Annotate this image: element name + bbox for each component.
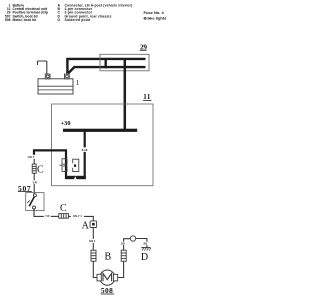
wire <box>51 215 59 217</box>
svg-text:Soldered point: Soldered point <box>65 18 92 22</box>
label 29 <box>140 43 148 51</box>
svg-text:A: A <box>82 221 90 232</box>
wire <box>33 159 35 164</box>
wire switch to bottom run <box>34 209 44 216</box>
svg-text:Y-R: Y-R <box>32 180 37 184</box>
svg-text:8-18: 8-18 <box>82 148 88 152</box>
svg-text:C: C <box>60 203 67 214</box>
terminal strip 29 <box>100 54 149 71</box>
wire <box>68 215 71 217</box>
connector A <box>90 221 97 228</box>
fuse clip right <box>73 159 79 171</box>
battery ground wire <box>38 61 47 74</box>
legend column 2 <box>58 3 133 22</box>
label 507 <box>18 184 32 193</box>
svg-text:B: B <box>105 252 112 263</box>
wire <box>92 228 94 239</box>
svg-text:GN-Y: GN-Y <box>28 155 35 159</box>
svg-text:Motor, boot lid: Motor, boot lid <box>13 18 36 22</box>
connector C left <box>32 164 36 173</box>
connector B right <box>121 250 126 261</box>
node +30 bus <box>63 129 137 132</box>
connector C bottom <box>59 214 69 219</box>
ground D <box>141 248 151 251</box>
connector B left <box>91 250 96 261</box>
svg-text:SB: SB <box>143 242 147 246</box>
svg-text:Brake lights: Brake lights <box>144 15 168 20</box>
wire to ground <box>136 239 147 242</box>
svg-text:SB: SB <box>121 242 125 246</box>
svg-text:11: 11 <box>143 93 151 101</box>
battery 1 <box>38 74 73 94</box>
wire B left to motor <box>93 261 97 277</box>
motor 508 <box>97 270 118 285</box>
bar in strip 29 <box>104 58 106 68</box>
svg-text:C: C <box>37 165 44 176</box>
central electrical unit 11 <box>52 104 154 186</box>
svg-text:508: 508 <box>5 18 11 22</box>
wire motor to B right <box>118 261 124 277</box>
label 508 <box>101 286 115 295</box>
wire bus to fuse <box>84 132 86 177</box>
svg-text:+30: +30 <box>61 120 71 127</box>
wire 29 down to unit 11 <box>124 58 127 130</box>
wire <box>92 243 94 250</box>
wire <box>146 245 148 247</box>
wire <box>33 184 35 194</box>
wire rail lower <box>68 67 145 73</box>
wire to soldered point <box>124 239 131 242</box>
wire rail upper (battery + to strip 29) <box>67 59 145 74</box>
fuse note <box>144 10 168 20</box>
svg-text:GN-Y 1: GN-Y 1 <box>73 214 82 218</box>
switch 507 <box>26 193 44 211</box>
svg-text:O: O <box>58 18 61 22</box>
legend column 1 <box>5 3 48 22</box>
svg-text:Y-R: Y-R <box>45 214 50 218</box>
fuse clip left <box>59 159 67 172</box>
fuse link <box>65 149 67 176</box>
wire <box>33 173 35 180</box>
wire fuse out to left <box>34 150 67 154</box>
label 11 <box>143 93 152 101</box>
wire B right up <box>123 245 125 250</box>
soldered point O <box>130 236 135 241</box>
svg-text:GN 1: GN 1 <box>89 239 96 243</box>
svg-text:1: 1 <box>76 80 79 87</box>
svg-text:D: D <box>141 252 148 263</box>
wire to A <box>84 216 93 221</box>
